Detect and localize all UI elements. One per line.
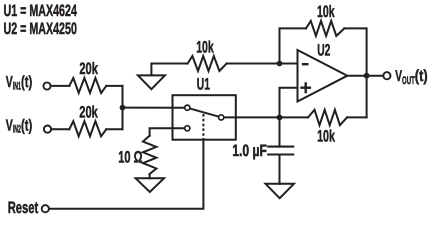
switch pin NC contact bbox=[185, 126, 190, 131]
svg-text:OUT: OUT bbox=[402, 75, 415, 87]
svg-text:20k: 20k bbox=[79, 104, 98, 122]
wire R4 to ground bbox=[149, 174, 151, 178]
wire R1 to summing corner bbox=[106, 85, 122, 87]
wire COM to feedback node bbox=[224, 116, 279, 118]
svg-text:U1: U1 bbox=[197, 75, 210, 93]
op-amp plus sign bbox=[300, 82, 311, 93]
resistor R5 10k feedback zigzag bbox=[306, 21, 344, 36]
switch lever bbox=[191, 109, 218, 117]
node VOUT terminal bbox=[383, 72, 390, 79]
wire VIN2 to R2 bbox=[51, 128, 69, 130]
wire feedback left vertical bbox=[280, 28, 307, 63]
wire plus input bbox=[280, 88, 298, 118]
svg-text:10k: 10k bbox=[317, 3, 335, 21]
wire VIN1 to R1 bbox=[51, 85, 70, 87]
op-amp U2 triangle bbox=[298, 50, 348, 102]
resistor R2 20k zigzag bbox=[69, 121, 106, 136]
capacitor C1 plates bbox=[268, 147, 293, 155]
wire feedback right vertical bbox=[344, 28, 366, 117]
svg-text:Reset: Reset bbox=[8, 199, 39, 217]
svg-text:(t): (t) bbox=[21, 117, 32, 134]
node VIN2 terminal bbox=[44, 126, 51, 133]
switch pin NO contact bbox=[185, 105, 190, 110]
node VIN2 label bbox=[6, 117, 33, 135]
ground (below R4) bbox=[136, 178, 164, 192]
resistor R3 10k zigzag bbox=[188, 56, 227, 71]
wire opamp output bbox=[347, 75, 383, 77]
svg-text:(t): (t) bbox=[21, 74, 32, 91]
switch control dashed line bbox=[202, 114, 204, 140]
resistor R4 10ohm zigzag (vertical) bbox=[143, 136, 157, 174]
wire summing node to switch NO pin bbox=[123, 107, 185, 109]
node VIN1 terminal bbox=[43, 82, 50, 89]
ground (left of R3) bbox=[150, 64, 152, 75]
wire R3 to inverting input bbox=[227, 63, 298, 65]
node Reset terminal bbox=[42, 205, 49, 212]
junction output node bbox=[364, 73, 370, 79]
svg-text:U1 = MAX4624: U1 = MAX4624 bbox=[4, 2, 78, 20]
wire switch control to Reset bbox=[49, 140, 203, 209]
svg-text:10k: 10k bbox=[196, 39, 214, 57]
svg-text:10k: 10k bbox=[317, 127, 335, 145]
svg-text:IN2: IN2 bbox=[13, 124, 21, 136]
wire ground to R3 bbox=[151, 63, 187, 65]
svg-text:(t): (t) bbox=[415, 68, 428, 85]
svg-text:1.0 µF: 1.0 µF bbox=[232, 142, 267, 160]
op-amp minus sign bbox=[302, 63, 309, 65]
svg-text:10 Ω: 10 Ω bbox=[118, 148, 142, 166]
wire NC to 10ohm corner bbox=[150, 128, 185, 135]
junction inverting node bbox=[277, 61, 283, 67]
svg-text:IN1: IN1 bbox=[13, 81, 21, 93]
node VOUT label bbox=[395, 68, 427, 87]
ground (below C1) bbox=[266, 184, 294, 198]
switch pin COM contact bbox=[219, 115, 224, 120]
resistor R6 10k bottom zigzag bbox=[308, 110, 347, 125]
junction feedback node bbox=[277, 115, 283, 121]
svg-text:U2: U2 bbox=[317, 42, 330, 60]
svg-text:20k: 20k bbox=[79, 60, 98, 78]
node VIN1 label bbox=[6, 74, 33, 92]
wire R2 to summing corner bbox=[106, 128, 122, 130]
junction summing node bbox=[120, 105, 126, 111]
resistor R1 20k zigzag bbox=[69, 78, 106, 93]
svg-text:U2 = MAX4250: U2 = MAX4250 bbox=[4, 20, 77, 38]
wire feedback node to capacitor bbox=[279, 117, 281, 146]
wire feedback node to R6 bbox=[280, 116, 309, 118]
wire summing vertical bbox=[122, 86, 124, 129]
wire capacitor to ground bbox=[279, 155, 281, 184]
switch U1 box bbox=[173, 95, 236, 140]
wire R6 to output vertical bbox=[347, 116, 367, 118]
